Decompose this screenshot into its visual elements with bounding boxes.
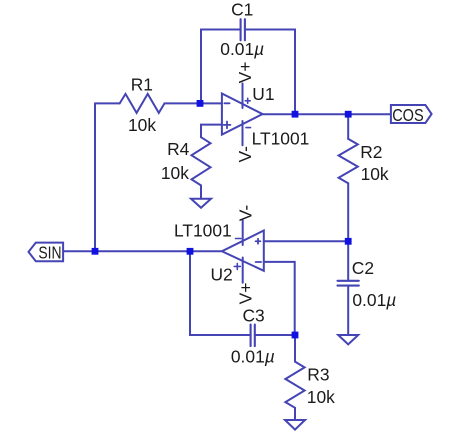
- svg-text:C3: C3: [243, 305, 265, 325]
- svg-text:V+: V+: [235, 62, 255, 84]
- svg-text:C2: C2: [352, 258, 374, 278]
- op-amp U1 triangle: [222, 94, 263, 135]
- node SIN right (feedback to C3): [187, 248, 194, 255]
- wire: [95, 102, 120, 104]
- wire: [94, 103, 96, 251]
- svg-text:COS: COS: [392, 105, 424, 125]
- capacitor C2: [338, 281, 359, 286]
- wire: [347, 114, 349, 139]
- op-amp U2 supply - marker: [236, 238, 242, 240]
- svg-text:R3: R3: [307, 364, 329, 384]
- wire: [165, 102, 223, 104]
- wire: [190, 251, 251, 335]
- wire: [347, 183, 349, 280]
- node SIN left (rail to R1): [92, 248, 99, 255]
- node junction (R1 / C1 / U1 inverting input): [197, 100, 204, 107]
- svg-text:LT1001: LT1001: [174, 221, 232, 241]
- svg-text:U2: U2: [211, 264, 233, 284]
- node junction (U1 output / C1 right): [292, 111, 299, 118]
- svg-text:SIN: SIN: [38, 243, 61, 263]
- svg-text:V+: V+: [235, 283, 255, 305]
- resistor R2: [339, 139, 358, 183]
- svg-text:R1: R1: [131, 74, 153, 94]
- op-amp U2 supply + marker: [234, 263, 240, 269]
- op-amp U1 V- pin: [242, 121, 244, 145]
- ground (R3): [285, 420, 305, 430]
- wire: [294, 335, 296, 362]
- wire: [200, 185, 202, 198]
- op-amp U1 inverting input marker: [224, 102, 229, 104]
- svg-text:0.01µ: 0.01µ: [220, 39, 264, 59]
- op-amp U1 supply - marker: [246, 127, 251, 129]
- resistor R4: [192, 137, 211, 185]
- op-amp U2 V- pin: [242, 220, 244, 245]
- wire: [294, 408, 296, 420]
- svg-text:R2: R2: [360, 142, 382, 162]
- svg-text:10k: 10k: [128, 115, 156, 135]
- resistor R1: [120, 94, 165, 113]
- op-amp U1 V+ pin: [242, 83, 244, 108]
- svg-text:10k: 10k: [307, 387, 335, 407]
- svg-text:V-: V-: [235, 146, 255, 163]
- svg-text:R4: R4: [167, 139, 190, 159]
- op-amp U2 non-inverting input marker: [256, 239, 261, 244]
- capacitor C1: [241, 19, 245, 40]
- ground (R4): [191, 199, 211, 208]
- wire: [201, 125, 222, 138]
- svg-text:10k: 10k: [361, 164, 389, 184]
- flag SIN: [29, 243, 64, 262]
- wire: [263, 113, 391, 115]
- svg-text:V-: V-: [235, 205, 255, 222]
- op-amp U1 non-inverting input marker: [224, 122, 231, 129]
- svg-text:10k: 10k: [161, 163, 189, 183]
- wire: [245, 30, 295, 115]
- node junction (C3 / R3 / U2 inverting input): [292, 332, 299, 339]
- svg-text:U1: U1: [252, 84, 274, 104]
- wire: [63, 250, 222, 252]
- flag COS: [391, 105, 432, 123]
- resistor R3: [285, 362, 304, 408]
- capacitor C3: [251, 325, 255, 347]
- wire: [264, 262, 295, 335]
- svg-text:0.01µ: 0.01µ: [231, 346, 275, 366]
- wire: [347, 286, 349, 335]
- wire: [201, 30, 241, 104]
- op-amp U2 triangle: [222, 231, 264, 271]
- ground (C2): [338, 335, 358, 344]
- node COS (U1 output / R2): [345, 111, 352, 118]
- svg-text:0.01µ: 0.01µ: [352, 290, 396, 310]
- op-amp U2 V+ pin: [242, 258, 244, 283]
- op-amp U1 supply + marker: [245, 98, 250, 103]
- wire: [264, 240, 348, 242]
- op-amp U2 inverting input marker: [256, 261, 262, 263]
- wire: [255, 334, 295, 336]
- svg-text:C1: C1: [231, 0, 253, 20]
- svg-text:LT1001: LT1001: [252, 128, 310, 148]
- node junction (R2 / C2 / U2 non-inverting input): [345, 238, 352, 245]
